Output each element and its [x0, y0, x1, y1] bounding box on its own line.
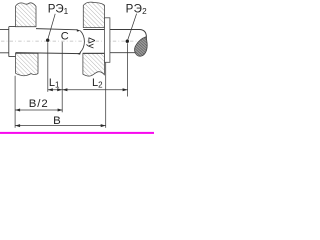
svg-text:L2: L2 [92, 77, 103, 90]
svg-text:РЭ2: РЭ2 [126, 3, 148, 16]
svg-text:С: С [61, 30, 69, 42]
svg-text:L1: L1 [49, 77, 60, 90]
svg-text:В: В [53, 115, 61, 127]
svg-text:В/2: В/2 [29, 98, 49, 110]
svg-text:Δу: Δу [86, 37, 97, 48]
svg-text:РЭ1: РЭ1 [48, 3, 69, 16]
